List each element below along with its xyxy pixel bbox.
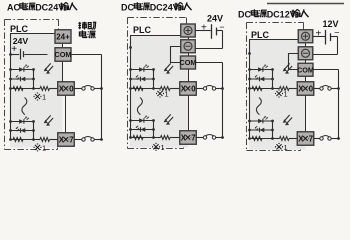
- section 3 PLC box top edge: [249, 39, 298, 41]
- section 3 X0 reverse diode (left-pointing): [260, 77, 265, 82]
- svg-text:DC: DC: [121, 3, 134, 13]
- section 1 X7 optocoupler light arrows: [46, 115, 51, 121]
- svg-text:X: X: [298, 85, 304, 94]
- section 1 switch for X7: [74, 139, 82, 141]
- section 2 terminal X※0: [180, 82, 197, 96]
- section 1 X0 LED emission arrows: [25, 65, 27, 67]
- section 1 left internal rail: [10, 34, 12, 140]
- section 1 X0 LED diode (right-pointing): [19, 67, 24, 72]
- section 2 COM wire to external bus: [195, 62, 222, 64]
- section 3 internal link ⊖ to COM: [289, 54, 299, 70]
- section 3 X0 reverse diode arrows: [256, 77, 258, 79]
- svg-text:7: 7: [191, 134, 195, 143]
- section 3 X7 input branch wires: [250, 120, 273, 122]
- section 3 X0 input branch wires: [250, 69, 273, 71]
- svg-text:DC24V: DC24V: [35, 3, 64, 13]
- svg-text:X: X: [59, 85, 65, 94]
- section 2 switch for X7: [196, 137, 203, 139]
- section 3 switch for X7: [314, 138, 320, 140]
- section 1 X7 LED emission arrows: [25, 117, 27, 119]
- section 1 junction at rail/battery wire: [9, 53, 12, 56]
- section 3 rail junction dot: [248, 52, 251, 55]
- section 1 X7 reverse diode arrows: [17, 129, 19, 131]
- section 3 terminal column edge: [305, 43, 307, 47]
- svg-text:DC: DC: [238, 10, 251, 20]
- section 2 X0 input branch wires: [131, 69, 154, 71]
- svg-text:7: 7: [69, 136, 73, 145]
- section 3 title: DC power DC12V input: [238, 9, 309, 19]
- section 2 X7 reverse diode (left-pointing): [141, 127, 146, 132]
- section 3 X7 reverse diode arrows: [256, 128, 258, 130]
- svg-text:24+: 24+: [56, 33, 70, 42]
- section 2 X7 parallel resistor: [133, 136, 143, 140]
- svg-text:7: 7: [309, 135, 313, 144]
- section 1 terminal COM: [55, 48, 71, 62]
- section 1 ellipsis squiggle: [22, 98, 27, 115]
- svg-text:COM: COM: [297, 65, 314, 74]
- section 3 terminal ⊖: [298, 47, 313, 60]
- section 2 X7 series resistor ※1: [161, 136, 171, 140]
- section 2 PLC unit body: [130, 35, 188, 148]
- section 3 X0 parallel resistor: [252, 87, 262, 91]
- section 2 terminal column edge: [188, 37, 190, 40]
- section 3 X0 optocoupler light arrows: [285, 63, 290, 69]
- section 2 chain-line PLC boundary: [128, 18, 187, 149]
- section 2 terminal COM: [181, 56, 196, 69]
- section 1 title: AC power DC24V input: [7, 2, 77, 12]
- section 2 note ※1 (lower): [153, 143, 165, 152]
- section 1 internal battery symbol: [20, 49, 22, 60]
- section 1 X7 series resistor ※1: [40, 138, 50, 142]
- section 3 X7 parallel resistor: [252, 137, 262, 141]
- section 1 X7 reverse diode (left-pointing): [21, 128, 26, 133]
- svg-text:PLC: PLC: [133, 25, 152, 35]
- section 1 X0 junction dots: [9, 68, 12, 71]
- section 1 PLC unit body: [10, 34, 63, 148]
- section 1 switch for X0: [74, 88, 82, 90]
- section 1 note ※1 (lower): [34, 143, 46, 152]
- section 2 title: DC power DC24V input: [121, 2, 192, 12]
- section 3 ellipsis squiggle: [256, 98, 261, 115]
- svg-text:1: 1: [284, 143, 288, 152]
- section 1 X0 optocoupler light arrows: [46, 63, 51, 69]
- section 3 X0 series resistor ※1: [280, 87, 290, 91]
- section 3 note ※1 (lower): [276, 143, 288, 152]
- svg-text:X: X: [298, 135, 304, 144]
- section 2 X0 series resistor ※1: [161, 87, 171, 91]
- section 3 X7 LED diode (right-pointing): [258, 119, 263, 124]
- section 1 service supply label 辅助电源: [78, 22, 95, 39]
- svg-text:1: 1: [165, 90, 169, 99]
- section 3 X7 optocoupler light arrows: [285, 115, 290, 121]
- section 2 PLC box top edge: [130, 35, 181, 37]
- section 3 X0 junction dots: [248, 68, 251, 71]
- section 2 ellipsis squiggle: [137, 98, 142, 115]
- section 1 terminal 24+: [55, 30, 71, 44]
- svg-text:0: 0: [69, 85, 74, 94]
- section 1 X7 LED diode (right-pointing): [19, 119, 24, 124]
- section 2 terminal X※7: [180, 131, 197, 145]
- section 2 external right bus: [222, 63, 224, 138]
- section 3 terminal X※0: [297, 82, 314, 96]
- section 3 X0 LED diode (right-pointing): [258, 67, 263, 72]
- section 2 X7 reverse diode arrows: [137, 128, 139, 130]
- section 2 X7 LED diode (right-pointing): [139, 118, 144, 123]
- section 3 external right bus: [338, 70, 340, 139]
- svg-text:+: +: [201, 23, 207, 34]
- section 2 X0 parallel resistor: [133, 87, 143, 91]
- section 3 terminal ⊕: [298, 30, 313, 43]
- svg-text:0: 0: [309, 85, 314, 94]
- section 1 X7 junction dots: [9, 120, 12, 123]
- svg-text:0: 0: [191, 85, 196, 94]
- section 3 PLC unit body: [249, 40, 306, 150]
- section 1 chain-line PLC boundary: [5, 20, 59, 150]
- section 2 X7 junction dots: [129, 119, 132, 122]
- svg-text:X: X: [181, 85, 187, 94]
- section 2 terminal ⊖: [181, 40, 196, 53]
- section 1 note ※1 (upper): [34, 93, 46, 102]
- section 3 note ※1 (upper): [276, 90, 288, 99]
- section 2 left internal rail: [130, 36, 132, 138]
- svg-text:1: 1: [42, 143, 46, 152]
- section 1 terminal column edge: [62, 43, 64, 48]
- stray rule above section 3: [267, 3, 344, 5]
- section 1 external right bus: [101, 55, 103, 140]
- section 1 COM wire to external bus: [70, 54, 101, 56]
- svg-text:PLC: PLC: [10, 24, 29, 34]
- svg-text:X: X: [181, 134, 187, 143]
- section 3 terminal COM: [298, 63, 313, 76]
- svg-text:DC12V: DC12V: [267, 10, 296, 20]
- svg-text:COM: COM: [54, 50, 71, 59]
- section 3 left internal rail: [249, 40, 251, 139]
- svg-text:1: 1: [284, 90, 288, 99]
- section 1 terminal X※7: [58, 133, 75, 147]
- section 2 note ※1 (upper): [157, 90, 169, 99]
- section 2 X0 reverse diode (left-pointing): [141, 77, 146, 82]
- section 3 COM wire to external bus: [313, 69, 339, 71]
- section 3 X7 LED emission arrows: [264, 116, 266, 118]
- section 2 external battery 24V: [195, 14, 224, 49]
- section 2 X0 optocoupler light arrows: [166, 63, 171, 69]
- section 3 external battery 12V: [313, 19, 340, 54]
- section 3 X7 reverse diode (left-pointing): [260, 128, 265, 133]
- svg-text:DC24V: DC24V: [150, 3, 179, 13]
- section 3 X0 LED emission arrows: [264, 65, 266, 67]
- section 1 X7 parallel resistor: [13, 138, 23, 142]
- svg-text:1: 1: [161, 143, 165, 152]
- section 2 X0 junction dots: [129, 68, 132, 71]
- svg-text:COM: COM: [179, 58, 196, 67]
- section 2 rail junction dot: [129, 46, 132, 49]
- svg-text:+: +: [11, 44, 17, 55]
- section 1 terminal X※0: [58, 82, 75, 96]
- svg-text:1: 1: [42, 93, 46, 102]
- section 1 X0 reverse diode (left-pointing): [21, 77, 26, 82]
- section 2 X7 input branch wires: [131, 120, 154, 122]
- section 3 terminal X※7: [297, 132, 314, 146]
- section 1 PLC box top edge: [10, 33, 55, 35]
- svg-text:PLC: PLC: [251, 30, 270, 40]
- section 1 X0 input branch wires: [11, 69, 34, 71]
- section 3 X7 junction dots: [248, 120, 251, 123]
- section 2 X0 reverse diode arrows: [137, 77, 139, 79]
- section 3 chain-line PLC boundary: [247, 23, 304, 151]
- section 2 X7 optocoupler light arrows: [166, 114, 171, 120]
- svg-text:X: X: [59, 136, 65, 145]
- section 3 X7 series resistor ※1: [280, 137, 290, 141]
- section 1 X0 series resistor ※1: [40, 87, 50, 91]
- svg-text:AC: AC: [7, 3, 20, 13]
- section 2 X0 LED diode (right-pointing): [139, 67, 144, 72]
- section 2 X0 LED emission arrows: [145, 65, 147, 67]
- section 2 X7 LED emission arrows: [145, 116, 147, 118]
- section 1 X7 input branch wires: [11, 121, 34, 123]
- section 2 terminal ⊕: [181, 24, 196, 37]
- svg-text:+: +: [316, 28, 322, 39]
- section 3 switch for X0: [314, 88, 320, 90]
- section 1 X0 reverse diode arrows: [17, 77, 19, 79]
- section 2 internal link ⊖ to COM: [171, 47, 181, 63]
- section 1 X0 parallel resistor: [13, 87, 23, 91]
- section 1 internal battery wire to COM: [11, 54, 20, 56]
- section 2 switch for X0: [196, 88, 203, 90]
